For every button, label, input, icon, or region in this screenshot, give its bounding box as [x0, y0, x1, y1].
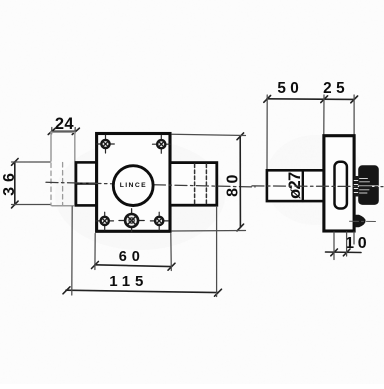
svg-text:25: 25: [323, 80, 349, 97]
svg-text:ø27: ø27: [286, 172, 304, 199]
dimension 115 line: [63, 287, 222, 296]
svg-text:80: 80: [224, 170, 241, 197]
dimension 60 line: [92, 262, 176, 271]
LINCE medallion circle: [113, 166, 153, 206]
thumbturn base plate: [335, 162, 347, 209]
knob centerline gap: [359, 185, 379, 187]
bolt hidden dashed lines: [195, 164, 207, 204]
knob highlight streaks: [360, 179, 370, 194]
dimension 36 line: [12, 159, 19, 208]
spindle cone: [355, 215, 366, 228]
lock body (front view): [97, 134, 170, 232]
dimension 80 line: [237, 133, 244, 231]
screw top-left: [97, 135, 115, 153]
screw bottom-center (large): [119, 209, 144, 232]
dimension 60 extension lines: [95, 234, 171, 271]
dimension 10 line: [326, 249, 362, 256]
collar divider: [76, 182, 97, 184]
screw top-right: [153, 136, 171, 154]
cylinder (side view): [267, 170, 324, 201]
svg-text:50: 50: [277, 80, 303, 97]
front view centerline: [46, 182, 255, 187]
dimension 50/25 extension lines: [267, 95, 354, 170]
lock case (side view): [324, 136, 354, 231]
dimension 24 line: [48, 128, 79, 134]
knob body: [358, 165, 379, 205]
screw bottom-right: [150, 212, 168, 230]
dimension 24 extension lines: [52, 128, 76, 135]
screw bottom-left: [96, 212, 114, 230]
svg-text:LINCE: LINCE: [120, 182, 147, 189]
escutcheon plate (faint front view): [51, 132, 75, 206]
svg-text:60: 60: [119, 249, 145, 265]
svg-text:115: 115: [109, 273, 148, 290]
knob knurled ridges: [354, 176, 358, 197]
dimension 50/25 line: [264, 96, 358, 103]
cylinder collar (dark protrusion): [76, 162, 97, 205]
bolt (latch): [170, 163, 217, 206]
side view centerline: [252, 185, 383, 188]
cylinder divider: [302, 170, 304, 201]
svg-text:24: 24: [55, 115, 75, 133]
dimension 115 extension lines: [72, 207, 217, 297]
spindle cone centerline: [350, 220, 378, 222]
dimension 10 extension lines: [334, 232, 354, 260]
escutcheon hidden dashed edges: [51, 163, 63, 206]
dimension 80 extension lines: [172, 134, 246, 231]
dimension 36 extension lines: [12, 162, 51, 205]
